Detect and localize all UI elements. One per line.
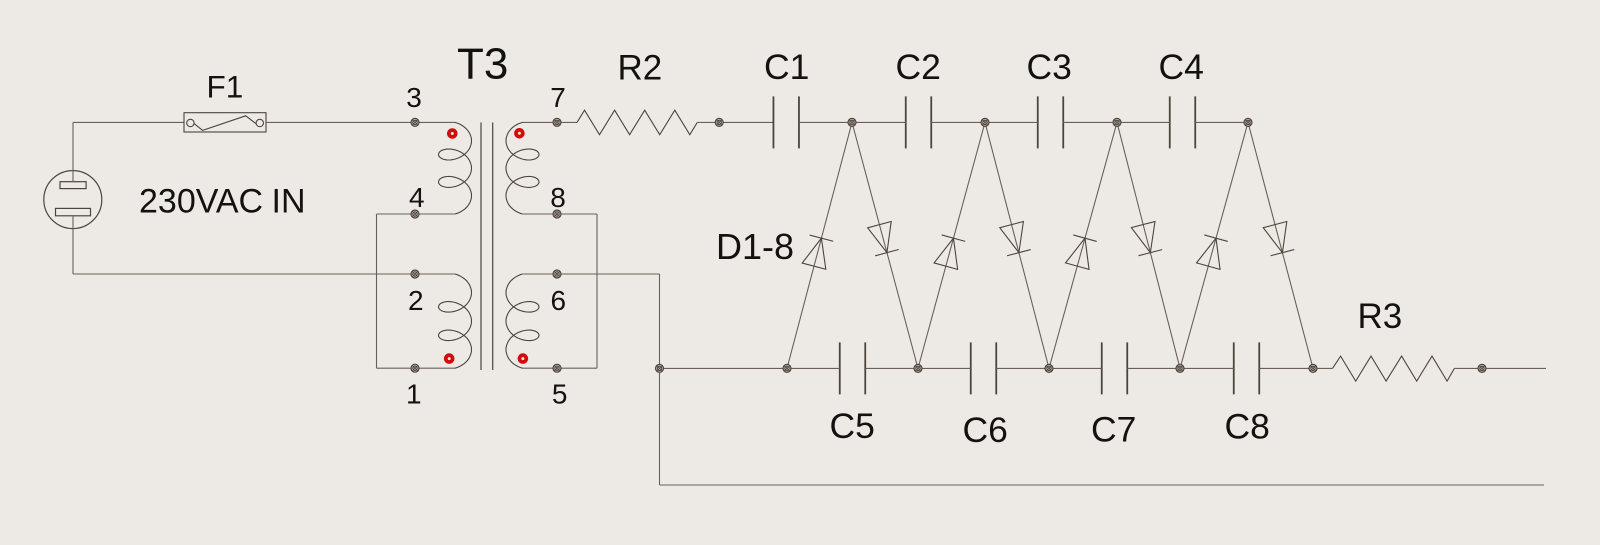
wire C6 to B3 (997, 367, 1050, 369)
svg-text:C6: C6 (963, 410, 1008, 450)
svg-text:C7: C7 (1091, 410, 1136, 450)
node B4 (1176, 364, 1184, 372)
wire R2 to C1 (697, 121, 773, 123)
terminal pin 5 (553, 364, 561, 372)
diode D7 (1197, 235, 1228, 269)
node B1 (783, 364, 791, 372)
svg-text:C5: C5 (830, 406, 875, 446)
wire node to B1 (660, 367, 788, 369)
svg-text:T3: T3 (457, 40, 508, 89)
wire diode diagonal 8 (1248, 122, 1313, 368)
wire winding to pin5 (523, 367, 558, 369)
wire T2 to C3 (985, 121, 1038, 123)
resistor R2 (577, 110, 697, 135)
wire pin6 right (557, 273, 660, 275)
wire pin2 to winding (415, 273, 455, 275)
node T2 (981, 118, 989, 126)
wire B5 to R3 (1313, 367, 1333, 369)
diode D2 (868, 221, 899, 255)
wire diode diagonal 5 (1049, 122, 1117, 368)
capacitor C3 (1038, 96, 1064, 148)
terminal pin 1 (411, 364, 419, 372)
wire diode diagonal 4 (985, 122, 1049, 368)
wire fuse to pin 3 (266, 121, 415, 123)
wire to pin1 (377, 367, 416, 369)
wire diode diagonal 6 (1117, 122, 1180, 368)
terminal pin 6 (553, 270, 561, 278)
wire plug-bottom down (72, 216, 74, 274)
capacitor C5 (840, 342, 866, 394)
diode D6 (1131, 222, 1162, 256)
terminal pin 8 (553, 210, 561, 218)
polarity dot winding 3-4 (449, 130, 456, 137)
node output (1478, 364, 1486, 372)
svg-text:C2: C2 (896, 47, 941, 87)
wire pin3 to winding (415, 121, 455, 123)
resistor R3 (1333, 356, 1455, 381)
wire link 4-1 vertical (376, 214, 378, 368)
fuse F1 (184, 113, 266, 132)
wire top rail to fuse (73, 121, 184, 123)
svg-text:230VAC: 230VAC (139, 183, 263, 221)
wire to pin5 (557, 367, 597, 369)
wire C5 to B2 (866, 367, 919, 369)
polarity dot winding 7-8 (516, 130, 523, 137)
node after R2 (715, 118, 723, 126)
wire winding to pin8 (523, 213, 558, 215)
wire diode diagonal 1 (787, 122, 852, 368)
wire C4 to T4 (1195, 121, 1248, 123)
diode D1 (802, 235, 833, 269)
wire C7 to B4 (1128, 367, 1181, 369)
capacitor C8 (1234, 342, 1260, 394)
svg-text:D1-8: D1-8 (716, 226, 794, 267)
wire diode diagonal 3 (918, 122, 985, 368)
wire pin1 to winding (415, 367, 455, 369)
node bottom junction (656, 364, 664, 372)
transformer winding 7-8 (secondary upper) (506, 122, 539, 214)
polarity dot winding 2-1 (446, 355, 453, 362)
terminal pin 7 (553, 118, 561, 126)
wire bottom input to pin 2 (73, 273, 415, 275)
svg-text:2: 2 (408, 285, 424, 316)
terminal pin 3 (411, 118, 419, 126)
wire link 8-5 vertical (596, 214, 598, 368)
diode D5 (1066, 235, 1097, 269)
wire B4 to C8 (1180, 367, 1234, 369)
capacitor C6 (971, 342, 997, 394)
transformer winding 6-5 (secondary lower) (506, 274, 539, 368)
svg-text:C4: C4 (1159, 47, 1204, 87)
wire T1 to C2 (852, 121, 906, 123)
terminal pin 2 (411, 270, 419, 278)
wire C1 to node T1 (799, 121, 852, 123)
wire down to bottom (659, 274, 661, 485)
node B3 (1045, 364, 1053, 372)
terminal pin 4 (411, 210, 419, 218)
wire pin7 to R2 (557, 121, 577, 123)
polarity dot winding 6-5 (520, 355, 527, 362)
capacitor C1 (773, 96, 799, 148)
svg-text:R3: R3 (1358, 297, 1403, 336)
svg-text:C3: C3 (1027, 47, 1072, 87)
capacitor C2 (906, 96, 932, 148)
svg-text:6: 6 (551, 285, 567, 316)
node B5 (1309, 364, 1317, 372)
wire bottom output rail (660, 484, 1545, 486)
wire pin8 right (557, 213, 597, 215)
svg-text:5: 5 (552, 379, 568, 410)
svg-text:C8: C8 (1225, 407, 1270, 447)
wire winding to pin7 (523, 121, 558, 123)
transformer T3 core (481, 123, 493, 371)
wire T3node to C4 (1117, 121, 1170, 123)
wire diode diagonal 7 (1180, 122, 1248, 368)
transformer winding 3-4 (primary upper) (439, 122, 472, 214)
wire plug-top to top rail (72, 122, 74, 181)
wire C2 to T2 (931, 121, 985, 123)
diode D3 (934, 235, 965, 269)
wire pin4 left (377, 213, 416, 215)
wire B2 to C6 (918, 367, 971, 369)
svg-text:1: 1 (406, 379, 422, 410)
capacitor C7 (1102, 342, 1128, 394)
svg-text:F1: F1 (207, 69, 244, 105)
wire B3 to C7 (1049, 367, 1102, 369)
wire C3 to T3node (1063, 121, 1117, 123)
node T1 (848, 118, 856, 126)
transformer winding 2-1 (primary lower) (439, 274, 472, 368)
svg-text:R2: R2 (618, 49, 663, 88)
node B2 (914, 364, 922, 372)
wire pin4 to winding (415, 213, 455, 215)
AC plug P1 (44, 171, 102, 229)
wire diode diagonal 2 (852, 122, 918, 368)
wire winding to pin6 (523, 273, 558, 275)
svg-text:8: 8 (550, 182, 566, 213)
diode D4 (1000, 222, 1031, 256)
svg-text:4: 4 (409, 182, 425, 213)
wire R3 to output (1454, 367, 1546, 369)
node T4 (1244, 118, 1252, 126)
capacitor C4 (1170, 96, 1196, 148)
svg-text:3: 3 (406, 82, 422, 113)
svg-text:7: 7 (550, 82, 566, 113)
node T3 (1113, 118, 1121, 126)
wire B1 to C5 (787, 367, 840, 369)
wire C8 to B5 (1260, 367, 1314, 369)
svg-text:C1: C1 (764, 47, 809, 87)
diode D8 (1263, 221, 1294, 255)
svg-text:IN: IN (272, 183, 306, 221)
